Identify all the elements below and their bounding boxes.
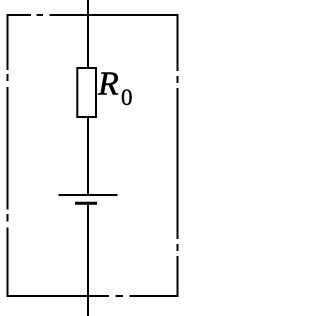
svg-text:0: 0 <box>121 85 133 110</box>
svg-text:R: R <box>97 66 119 103</box>
